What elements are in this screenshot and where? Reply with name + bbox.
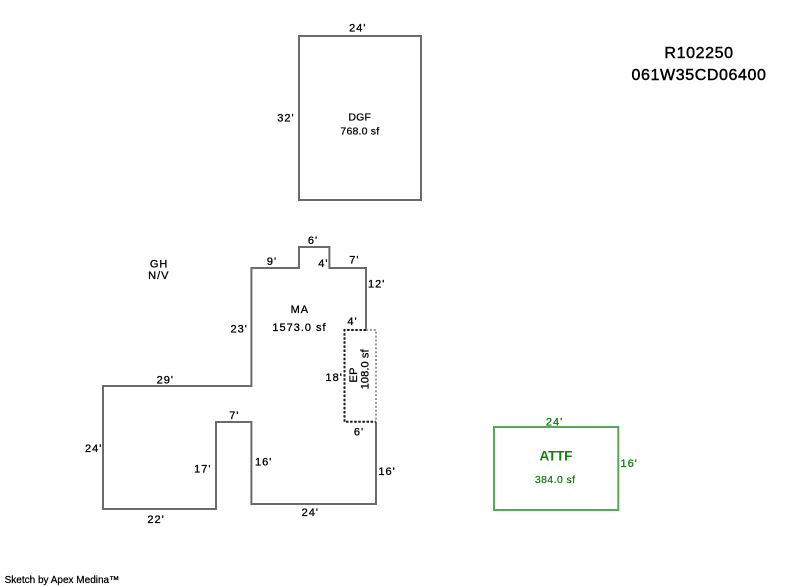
ATTF outline green (494, 427, 618, 510)
svg-text:9': 9' (267, 256, 277, 268)
DGF outline (299, 36, 421, 200)
svg-text:R102250: R102250 (664, 45, 733, 62)
svg-text:ATTF: ATTF (540, 448, 573, 463)
svg-text:16': 16' (255, 456, 272, 468)
svg-text:24': 24' (302, 507, 319, 519)
svg-text:384.0 sf: 384.0 sf (535, 474, 576, 486)
svg-text:MA: MA (291, 304, 310, 316)
MA outline solid (103, 247, 376, 509)
svg-text:7': 7' (229, 410, 239, 422)
svg-text:12': 12' (368, 279, 385, 291)
svg-text:24': 24' (349, 23, 366, 35)
svg-text:768.0 sf: 768.0 sf (340, 125, 379, 137)
svg-text:16': 16' (621, 458, 638, 470)
EP outline dotted gray (366, 330, 376, 422)
svg-text:GH: GH (150, 258, 169, 270)
svg-text:Sketch by Apex Medina™: Sketch by Apex Medina™ (5, 575, 120, 586)
svg-text:061W35CD06400: 061W35CD06400 (632, 67, 767, 84)
svg-text:29': 29' (157, 375, 174, 387)
svg-text:4': 4' (347, 316, 357, 328)
svg-text:4': 4' (318, 258, 328, 270)
svg-text:18': 18' (325, 372, 342, 384)
svg-text:16': 16' (378, 466, 395, 478)
svg-text:17': 17' (194, 464, 211, 476)
svg-text:6': 6' (354, 427, 364, 439)
svg-text:24': 24' (85, 443, 102, 455)
svg-text:7': 7' (349, 255, 359, 267)
MA/EP shared wall dashed (345, 330, 377, 422)
svg-text:EP: EP (348, 367, 360, 382)
svg-text:32': 32' (277, 113, 294, 125)
svg-text:23': 23' (230, 323, 247, 335)
svg-text:22': 22' (147, 514, 164, 526)
svg-text:1573.0 sf: 1573.0 sf (272, 322, 326, 334)
svg-text:24': 24' (546, 416, 563, 428)
svg-text:N/V: N/V (148, 270, 169, 282)
svg-text:108.0 sf: 108.0 sf (360, 348, 372, 389)
svg-text:6': 6' (308, 235, 318, 247)
svg-text:DGF: DGF (348, 112, 371, 124)
